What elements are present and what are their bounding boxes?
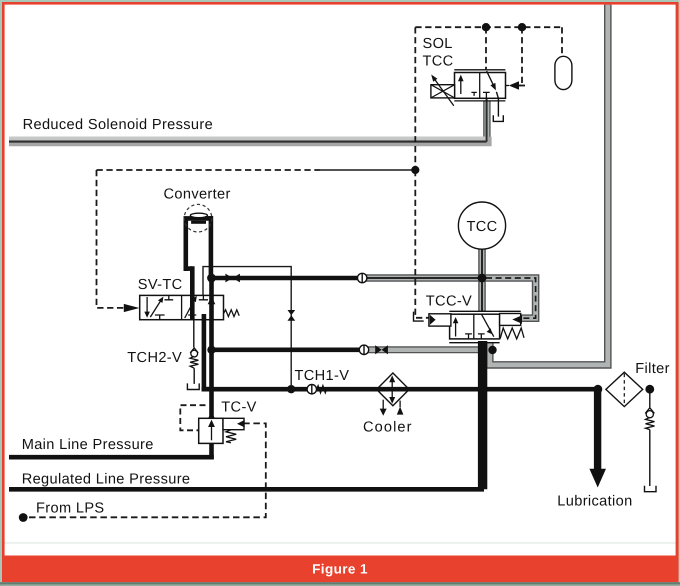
svg-text:TCH2-V: TCH2-V — [127, 350, 182, 366]
wire: SV-TC to TCH1 corner bar — [202, 314, 212, 391]
valve TCC-V — [414, 311, 525, 342]
svg-text:Filter: Filter — [635, 361, 670, 377]
wire: solid segment of pilot rail — [320, 169, 412, 171]
node: pilot rail junction 1 — [482, 23, 490, 31]
pilot dashed line: From LPS to TC-V pilot — [29, 423, 266, 517]
svg-text:Regulated Line Pressure: Regulated Line Pressure — [22, 471, 191, 487]
wire: main supply vertical bar — [209, 276, 214, 459]
wire: main line pressure horizontal — [9, 455, 214, 460]
node: TCH2 branch junction — [207, 346, 215, 354]
cooler — [377, 373, 410, 416]
wire: TCC supply gray line — [478, 249, 486, 312]
node: filter left junction — [594, 385, 603, 394]
svg-text:TCC: TCC — [423, 53, 454, 69]
svg-text:SOL: SOL — [423, 36, 453, 52]
accumulator — [555, 56, 572, 89]
orifice symbol on TCH2 gray line — [375, 345, 388, 354]
valve SOL TCC — [431, 70, 525, 122]
svg-text:Lubrication: Lubrication — [557, 494, 632, 510]
check valve TCH1-V with spring — [307, 385, 327, 394]
wire: regulated to TCC-V vertical — [478, 341, 487, 489]
relief valve lube — [645, 393, 657, 492]
svg-text:Reduced Solenoid Pressure: Reduced Solenoid Pressure — [23, 117, 213, 133]
svg-text:TC-V: TC-V — [221, 400, 256, 416]
node: TCC junction — [478, 274, 487, 283]
wire: converter thick circuit — [184, 216, 214, 320]
orifice symbol on bypass line — [288, 310, 296, 321]
pilot dashed line: big box left edge to SV-TC pilot — [97, 170, 125, 308]
TCC indicator circle — [458, 202, 505, 249]
svg-text:Converter: Converter — [164, 186, 231, 202]
node: bypass TCH1 junction — [287, 385, 295, 393]
check valve on converter feed — [358, 273, 367, 282]
svg-text:TCC: TCC — [466, 219, 497, 235]
svg-text:TCC-V: TCC-V — [426, 293, 472, 309]
valve TC-V — [199, 412, 245, 444]
orifice symbol on converter feed — [225, 274, 240, 283]
wire: lubrication line with arrow — [594, 391, 601, 471]
svg-text:Figure 1: Figure 1 — [312, 561, 368, 576]
wire: TCH2 branch line — [212, 347, 363, 352]
pilot dashed line: big box top edge — [97, 169, 321, 171]
pilot dashed line: to SOL TCC right pilot — [520, 27, 523, 85]
svg-text:Main Line Pressure: Main Line Pressure — [22, 437, 154, 453]
pilot dashed line: vertical x415 net — [415, 27, 429, 318]
svg-text:SV-TC: SV-TC — [138, 277, 183, 293]
filter — [606, 372, 643, 406]
pilot dashed line: to accumulator — [561, 27, 563, 56]
pilot dashed line: SOL TCC top rail — [415, 26, 562, 28]
wire: regulated line pressure — [9, 487, 484, 492]
converter symbol — [184, 204, 212, 232]
pilot dashed line: to SOL TCC valve top — [485, 27, 487, 70]
wire: converter feed thick — [212, 276, 363, 281]
valve SV-TC — [124, 295, 239, 319]
node: pilot net junction — [411, 166, 419, 174]
node: filter right junction — [645, 385, 654, 394]
node: from LPS terminal — [19, 513, 28, 522]
wire: TCH1 cooler line — [202, 387, 598, 392]
wire: reduced solenoid pressure gray line — [9, 95, 492, 144]
wire: converter-out gray line to TCC node — [366, 274, 482, 282]
svg-text:Cooler: Cooler — [363, 420, 413, 436]
wire: solenoid return gray loop right side — [490, 5, 608, 365]
node: pilot rail junction 2 — [518, 23, 526, 31]
wire: TCC-V right pilot gray loop — [482, 278, 536, 318]
pilot dashed line: TC-V upper-left loop — [180, 405, 205, 430]
svg-text:TCH1-V: TCH1-V — [295, 368, 350, 384]
check valve on TCH2 line — [359, 345, 368, 354]
node: TCH2 gray junction — [488, 346, 496, 354]
wire: TCH2 gray extension line — [368, 346, 492, 353]
node: converter feed junction — [207, 274, 216, 283]
svg-text:From LPS: From LPS — [36, 500, 105, 516]
wire: thin rect converter bypass line — [203, 267, 291, 385]
relief valve TCH2-V — [187, 320, 199, 390]
